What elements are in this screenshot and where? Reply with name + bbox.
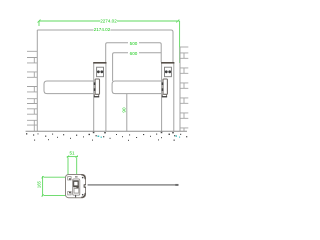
bolt dots	[97, 70, 100, 73]
dimension line 500 (posts inner gap)	[106, 43, 162, 63]
post body	[162, 63, 174, 131]
plan arm hinge tab	[84, 184, 86, 188]
dimension line 2274.02	[38, 20, 180, 27]
dimension text 51	[69, 151, 75, 156]
dimension line 2174.02	[37, 30, 173, 32]
plan lower white box	[74, 188, 79, 193]
mount foot tab	[94, 94, 98, 96]
plan housing top dash	[75, 176, 78, 178]
ground line	[26, 130, 187, 132]
post body	[94, 63, 106, 131]
plan detail: dimension 51	[67, 156, 78, 176]
plan corner reinforcement top-right	[81, 175, 85, 180]
plan bottom edge tick	[75, 195, 77, 198]
dimension text 600	[130, 51, 138, 56]
plan arm end cap	[175, 184, 178, 186]
mount fasteners	[162, 82, 164, 85]
dimension text 2274.02	[100, 19, 117, 24]
svg-text:165: 165	[37, 180, 42, 188]
right gate post	[161, 63, 174, 132]
right green extension line	[179, 21, 181, 63]
dimension text 2174.02	[94, 27, 111, 32]
right frame vertical	[172, 32, 174, 62]
dimension text 165 rotated	[37, 180, 42, 188]
vertical dimension 90 (arm height)	[126, 94, 128, 132]
post feet marks	[93, 132, 174, 134]
plan corner reinforcement bottom-right	[81, 193, 85, 198]
plan top-left bracket	[68, 177, 71, 180]
post control box	[165, 67, 172, 77]
ground specks	[26, 133, 187, 141]
mount foot tab	[162, 94, 166, 96]
svg-text:2174.02: 2174.02	[94, 27, 111, 32]
arm mount plate	[163, 79, 167, 94]
arm mount plate	[95, 79, 99, 94]
plan inner mechanism housing	[73, 179, 80, 195]
right wall face line	[179, 47, 181, 131]
left wall face line	[36, 30, 38, 131]
left gate arm	[44, 81, 94, 94]
dimension line 600 (arm to post)	[113, 53, 162, 81]
svg-text:2274.02: 2274.02	[100, 19, 117, 24]
left gate post	[93, 63, 106, 132]
post control box	[97, 67, 104, 77]
ground specks cyan	[98, 135, 181, 137]
svg-text:600: 600	[130, 51, 138, 56]
mount fasteners	[94, 82, 96, 85]
plan bottom-left bracket	[68, 192, 71, 195]
svg-text:90: 90	[122, 107, 127, 113]
svg-text:500: 500	[130, 41, 138, 46]
bolt dots	[165, 70, 168, 73]
post top cap	[161, 62, 174, 64]
right wall hatch	[180, 47, 188, 131]
left wall hatch	[27, 51, 37, 131]
svg-text:51: 51	[69, 151, 75, 156]
plan gate arm (top view)	[88, 184, 178, 186]
dimension text 500	[130, 41, 138, 46]
right gate arm	[112, 81, 162, 94]
plan small dark detail	[76, 186, 78, 188]
plan mechanism dark block	[73, 180, 79, 187]
plan detail: dimension 165	[42, 176, 67, 197]
plan view: outer post housing	[66, 175, 86, 198]
dimension text 90 rotated	[122, 107, 127, 113]
post top cap	[93, 62, 106, 64]
plan mechanism inner white square	[74, 182, 77, 186]
